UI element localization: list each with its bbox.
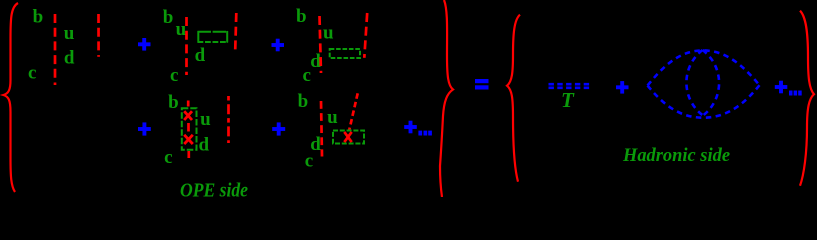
svg-text:c: c — [303, 65, 311, 86]
diagram 4: lower cross mark — [184, 135, 193, 144]
left curly brace of OPE side — [3, 3, 18, 192]
svg-text:c: c — [305, 150, 313, 171]
diagram 5: cross mark in box — [344, 132, 351, 142]
svg-text:u: u — [200, 109, 211, 130]
svg-text:b: b — [168, 92, 179, 113]
plus sign 1 — [138, 38, 151, 51]
svg-text:b: b — [33, 6, 44, 27]
diagram 4: quark condensate box (tall green dashed rectangle) — [182, 108, 197, 150]
svg-text:c: c — [28, 63, 36, 84]
ellipsis dots after plus 5 — [418, 131, 432, 136]
diagram 4: upper cross mark — [184, 111, 192, 120]
diagram 3: right propagator (red dashed) — [364, 13, 367, 58]
svg-text:T: T — [561, 88, 575, 112]
ellipsis dots after plus 7 — [789, 91, 802, 96]
svg-text:d: d — [195, 45, 206, 66]
svg-text:Hadronic side: Hadronic side — [622, 145, 731, 166]
plus sign 7 with ellipsis — [775, 81, 788, 94]
right curly brace of hadronic side — [800, 11, 814, 186]
meson loop: inner right arc — [703, 50, 720, 116]
svg-text:b: b — [296, 6, 307, 27]
svg-text:c: c — [164, 147, 172, 168]
meson loop: inner left arc — [686, 50, 703, 116]
svg-text:b: b — [298, 91, 309, 112]
svg-text:u: u — [327, 107, 338, 128]
plus sign 5 with ellipsis — [404, 121, 417, 134]
svg-text:u: u — [176, 19, 187, 40]
svg-text:u: u — [64, 23, 75, 44]
diagram 3: condensate box (green dashed rectangle) — [330, 49, 360, 58]
svg-text:u: u — [323, 23, 334, 44]
diagram 5: slanted propagator (red dashed) — [349, 93, 357, 130]
diagram 1: left light-quark propagator (red dashed) — [54, 14, 57, 85]
svg-text:d: d — [64, 47, 75, 68]
svg-text:b: b — [163, 7, 174, 28]
svg-text:d: d — [199, 135, 210, 156]
diagram 4: left propagator (red dashed, cut) — [187, 101, 190, 159]
svg-text:OPE side: OPE side — [180, 181, 248, 198]
diagram 3: left propagator (red dashed) — [320, 16, 322, 73]
diagram 2: condensate box (green dashed rectangle) — [198, 31, 229, 43]
plus sign 3 (row 2) — [138, 122, 151, 135]
diagram 4: right propagator (red dash-dot) — [227, 96, 230, 143]
diagram 1: right light-quark propagator (red dashed) — [97, 14, 100, 57]
left curly brace of hadronic side — [507, 15, 520, 182]
plus sign 4 (row 2) — [272, 122, 285, 135]
meson loop: outer lower arc — [648, 85, 760, 118]
diagram 2: left propagator (red dashed) — [185, 17, 188, 75]
plus sign 6 (hadronic side) — [616, 81, 629, 94]
plus sign 2 — [272, 39, 285, 52]
diagram 2: right propagator (red dashed) — [235, 13, 236, 51]
svg-text:c: c — [170, 65, 178, 86]
diagram 5: condensate box (green dashed rectangle) — [333, 131, 364, 144]
diagram 5: left propagator (red dashed) — [321, 101, 322, 157]
right curly brace of OPE side — [440, 0, 453, 197]
hadron double-line propagator (blue double dashed) — [549, 84, 591, 88]
equals sign — [475, 79, 489, 90]
meson loop (sunset) diagram: outer upper arc — [648, 50, 760, 85]
